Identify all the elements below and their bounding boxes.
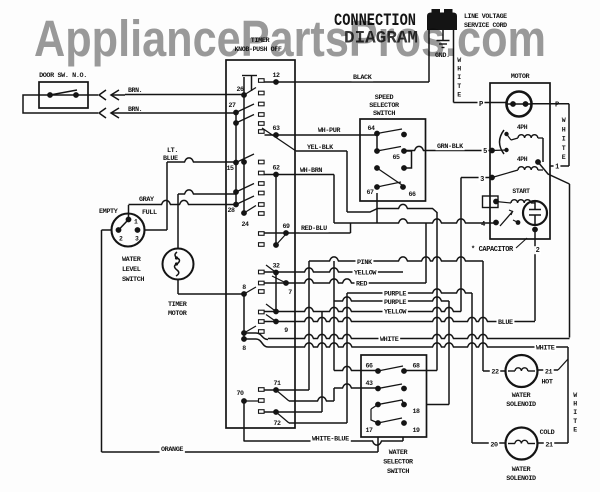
- wire 19 drop: [402, 437, 404, 441]
- svg-text:67: 67: [366, 189, 374, 196]
- switch timer 71 arm: [276, 390, 289, 401]
- svg-text:7: 7: [288, 289, 292, 296]
- node timer 8b: [241, 330, 247, 352]
- node timer 9: [273, 319, 288, 334]
- label motor: [511, 73, 531, 81]
- svg-text:1: 1: [555, 164, 559, 172]
- svg-text:27: 27: [228, 102, 236, 109]
- wire PURPLE upper: [347, 289, 472, 299]
- switch water-level arm 1-2: [119, 220, 129, 231]
- node timer 24: [241, 210, 249, 228]
- svg-text:SWITCH: SWITCH: [387, 468, 409, 476]
- svg-text:EMPTY: EMPTY: [99, 208, 119, 216]
- switch timer cams left: [236, 88, 264, 216]
- switch speed-selector box: [360, 119, 426, 201]
- svg-text:MOTOR: MOTOR: [511, 73, 531, 81]
- svg-text:BLACK: BLACK: [353, 74, 373, 82]
- node wsel l3: [375, 402, 381, 408]
- svg-text:HOT: HOT: [541, 379, 552, 387]
- node timer 27: [228, 102, 238, 115]
- svg-text:SWITCH: SWITCH: [122, 276, 144, 284]
- svg-text:FULL: FULL: [142, 209, 157, 217]
- svg-text:MOTOR: MOTOR: [168, 310, 188, 318]
- svg-text:32: 32: [272, 263, 280, 270]
- node timer 62: [272, 165, 280, 178]
- svg-text:PURPLE: PURPLE: [384, 291, 406, 299]
- ground gnd symbol: [437, 41, 450, 48]
- node timer b2: [233, 120, 239, 126]
- node motor 4: [480, 220, 499, 229]
- svg-text:START: START: [512, 188, 530, 195]
- wire YELLOW: [265, 268, 404, 278]
- wire yel-blk drop: [347, 151, 437, 213]
- switch wsel arm 17: [378, 418, 402, 423]
- switch motor overload box: [483, 196, 499, 208]
- svg-text:68: 68: [412, 363, 420, 370]
- svg-text:W: W: [562, 117, 566, 124]
- wire RED riser: [425, 223, 427, 283]
- svg-text:WATER: WATER: [122, 256, 142, 264]
- svg-text:WHITE: WHITE: [380, 336, 399, 344]
- wire YELLOW lower: [265, 307, 462, 316]
- wire timer 70 drop: [243, 401, 245, 442]
- label hot water solenoid: [506, 392, 536, 409]
- svg-text:PURPLE: PURPLE: [384, 299, 406, 307]
- svg-text:4: 4: [481, 221, 485, 229]
- switch wsel arm 43: [378, 384, 402, 389]
- wire timer bus A: [242, 76, 264, 96]
- node door-sw terminal right: [73, 92, 79, 98]
- wire gnd stem: [442, 30, 444, 41]
- node timer 28: [227, 202, 238, 214]
- node timer 7: [283, 280, 292, 296]
- svg-text:65: 65: [392, 154, 400, 161]
- svg-text:2: 2: [119, 236, 123, 243]
- svg-text:WATER: WATER: [512, 466, 532, 474]
- connector arrow head bottom: [111, 108, 125, 118]
- connector line-voltage service cord plug: [427, 9, 457, 30]
- wire RED-BLU: [265, 223, 351, 233]
- wire motor white diagonal: [538, 162, 570, 338]
- switch timer cams mid: [244, 232, 286, 334]
- svg-text:64: 64: [367, 125, 375, 132]
- svg-text:H: H: [573, 401, 577, 408]
- svg-text:66: 66: [365, 363, 373, 370]
- label timer: [235, 37, 282, 54]
- label WHITE vertical solenoids: [573, 392, 577, 433]
- svg-text:WH-BRN: WH-BRN: [300, 167, 322, 175]
- node timer 12: [272, 72, 280, 85]
- svg-text:17: 17: [365, 427, 373, 434]
- node timer 8: [241, 284, 247, 297]
- label timer-motor: [168, 301, 188, 318]
- wire timer-motor bottom lead: [178, 279, 244, 294]
- svg-text:RED: RED: [356, 281, 367, 289]
- svg-text:* CAPACITOR: * CAPACITOR: [471, 246, 514, 254]
- node speed l2: [374, 148, 380, 154]
- svg-text:18: 18: [412, 408, 420, 415]
- svg-text:E: E: [457, 91, 461, 98]
- svg-text:PINK: PINK: [357, 259, 373, 267]
- wire empty-side to left rail: [102, 229, 112, 231]
- node speed 66: [400, 184, 416, 198]
- svg-text:12: 12: [272, 72, 280, 79]
- svg-text:T: T: [457, 83, 461, 90]
- node speed 64: [367, 125, 379, 136]
- wire WH-PUR: [265, 127, 378, 135]
- node water-level terminal 1: [126, 217, 132, 223]
- svg-text:I: I: [562, 136, 566, 143]
- svg-text:28: 28: [227, 207, 235, 214]
- svg-text:21: 21: [545, 369, 553, 377]
- node wsel 19: [401, 420, 420, 434]
- switch water-selector box: [361, 355, 427, 437]
- label capacitor: [471, 238, 527, 254]
- node timer 62b: [273, 242, 279, 248]
- svg-text:GRAY: GRAY: [139, 196, 155, 204]
- wire speed 64 link: [376, 134, 378, 152]
- svg-text:COLD: COLD: [540, 429, 555, 437]
- svg-text:1: 1: [134, 219, 138, 226]
- wire YEL-BLK: [262, 128, 347, 152]
- svg-text:WHITE-BLUE: WHITE-BLUE: [312, 436, 349, 444]
- wire speed right U-link: [404, 151, 412, 168]
- node watermark-appliancepartspros: [34, 10, 546, 67]
- wire PINK: [265, 257, 484, 390]
- wire motor 2 drop: [534, 230, 541, 322]
- label EMPTY: [99, 208, 119, 216]
- node water-level terminal 3: [135, 227, 141, 233]
- svg-text:GRN-BLK: GRN-BLK: [437, 143, 464, 151]
- svg-text:BRN.: BRN.: [128, 87, 142, 94]
- svg-text:70: 70: [236, 390, 244, 397]
- coil timer-motor winding: [175, 252, 180, 276]
- node timer n311: [273, 309, 279, 315]
- node motor 5: [482, 147, 507, 156]
- switch door-sw-n.o. box: [39, 82, 88, 108]
- svg-text:63: 63: [272, 125, 280, 132]
- solenoid hot water circle: [506, 355, 538, 387]
- connector arrow head top: [111, 90, 125, 100]
- svg-text:E: E: [562, 154, 566, 161]
- wire GRAY: [129, 196, 237, 217]
- switch speed arm row2: [377, 147, 401, 152]
- svg-text:62: 62: [272, 165, 280, 172]
- svg-text:T: T: [562, 145, 566, 152]
- switch timer cams bottom: [244, 388, 264, 414]
- wire purple drop to 18: [427, 301, 449, 405]
- wire white drop from plug: [454, 30, 491, 103]
- wire ORANGE bottom run: [102, 445, 379, 454]
- label P left: [478, 100, 485, 109]
- svg-text:H: H: [562, 126, 566, 133]
- svg-text:71: 71: [273, 380, 281, 387]
- svg-text:SOLENOID: SOLENOID: [506, 401, 536, 409]
- svg-text:22: 22: [491, 369, 499, 377]
- wire pink drop to hot: [483, 261, 505, 371]
- node speed 67: [366, 184, 379, 196]
- svg-text:LEVEL: LEVEL: [122, 266, 141, 274]
- wire motor 3 lead: [461, 172, 511, 312]
- node wsel 18: [401, 402, 420, 415]
- svg-text:9: 9: [284, 327, 288, 334]
- svg-text:SELECTOR: SELECTOR: [383, 459, 414, 467]
- node speed r1: [401, 132, 407, 138]
- switch motor start-switch: [500, 210, 520, 226]
- switch timer box: [226, 60, 295, 428]
- label cold 20: [489, 441, 499, 450]
- wire 72diag to purple: [289, 293, 347, 423]
- coil motor start: [493, 188, 535, 204]
- node speed l3: [374, 165, 380, 171]
- node timer 72: [273, 409, 281, 427]
- wire WHITE upper: [244, 333, 570, 344]
- svg-text:T: T: [573, 418, 577, 425]
- svg-text:WHITE: WHITE: [536, 345, 555, 353]
- node timer 26: [236, 86, 246, 98]
- svg-text:BRN.: BRN.: [128, 106, 142, 113]
- svg-text:72: 72: [273, 420, 281, 427]
- svg-text:YEL-BLK: YEL-BLK: [307, 144, 334, 152]
- svg-text:WH-PUR: WH-PUR: [318, 127, 341, 135]
- wire white right drop: [538, 347, 568, 443]
- wire 17 drop: [377, 437, 379, 452]
- motor timer-motor circle: [163, 249, 194, 280]
- coil motor 4PH lower: [511, 156, 543, 172]
- svg-text:E: E: [573, 426, 577, 433]
- wire BLUE: [265, 317, 536, 327]
- wire P right link: [532, 104, 570, 166]
- svg-text:LT.: LT.: [167, 147, 178, 155]
- svg-text:19: 19: [412, 427, 420, 434]
- svg-text:RED-BLU: RED-BLU: [301, 225, 327, 233]
- solenoid cold water circle: [506, 428, 538, 460]
- svg-text:SWITCH: SWITCH: [373, 110, 395, 118]
- connector arrow chevron bottom: [99, 108, 106, 118]
- capacitor motor capacitor circle: [523, 201, 547, 225]
- wire 72 to yellow: [265, 411, 323, 413]
- svg-text:3: 3: [135, 236, 139, 243]
- svg-text:21: 21: [545, 442, 553, 450]
- svg-text:4PH: 4PH: [517, 124, 528, 131]
- wire yel-blk to 68: [404, 212, 437, 371]
- svg-text:43: 43: [365, 380, 373, 387]
- node timer 15: [226, 160, 238, 172]
- label FULL: [142, 209, 157, 217]
- wire BRN upper: [125, 87, 244, 95]
- svg-text:24: 24: [241, 221, 249, 228]
- wire LT-BLUE: [145, 147, 237, 230]
- wire BLACK run: [265, 73, 430, 82]
- label WHITE vertical right motor: [562, 117, 566, 161]
- wire timer 32 link: [275, 273, 277, 312]
- svg-text:ORANGE: ORANGE: [161, 446, 183, 454]
- switch wsel arm row3: [371, 400, 404, 423]
- node door-sw terminal left: [47, 92, 53, 98]
- wire WH-BRN: [265, 167, 335, 175]
- label cold water solenoid: [506, 466, 536, 483]
- node motor capacitor bottom: [532, 227, 538, 233]
- svg-text:YELLOW: YELLOW: [354, 270, 377, 278]
- label hot 21: [541, 368, 553, 387]
- wire PURPLE lower: [334, 297, 449, 307]
- svg-text:8: 8: [242, 345, 246, 352]
- node timer 32: [272, 263, 280, 276]
- svg-text:20: 20: [490, 442, 498, 450]
- wire wh-brn drop to motor4: [334, 175, 496, 224]
- wire black drop from plug: [428, 30, 430, 82]
- wire 66 feed: [334, 261, 378, 371]
- svg-text:26: 26: [236, 86, 244, 93]
- motor protector circle: [507, 92, 532, 117]
- label GND: [435, 52, 450, 60]
- wire GRN-BLK: [404, 142, 490, 151]
- node wsel 43: [365, 380, 380, 391]
- node timer 71: [273, 380, 281, 393]
- label door-sw: [39, 72, 87, 80]
- wire speed67 drop: [376, 193, 378, 223]
- switch motor centrifugal: [500, 130, 512, 154]
- svg-text:BLUE: BLUE: [163, 155, 178, 163]
- svg-text:69: 69: [282, 223, 290, 230]
- label hot 22: [490, 368, 500, 377]
- svg-text:WATER: WATER: [389, 449, 409, 457]
- label speed 65: [392, 154, 400, 161]
- node timer 69: [282, 223, 290, 236]
- label connection-diagram title: [334, 11, 418, 49]
- svg-text:SPEED: SPEED: [375, 94, 394, 102]
- wire WHITE lower: [244, 339, 568, 353]
- coil motor 4PH upper: [511, 124, 543, 140]
- wire coil link right: [535, 138, 543, 165]
- svg-text:YELLOW: YELLOW: [384, 309, 407, 317]
- wire timer-motor top lead: [178, 190, 236, 249]
- wire P left lead: [490, 102, 507, 104]
- wire timer 8 link: [243, 294, 245, 339]
- svg-text:8: 8: [242, 284, 246, 291]
- svg-text:AppliancePartsPros.com: AppliancePartsPros.com: [34, 10, 546, 67]
- label cold 21: [540, 429, 555, 450]
- switch wsel arm 66: [378, 366, 403, 371]
- switch speed arm 67: [377, 182, 401, 187]
- wire timer bus B: [235, 113, 237, 205]
- wire hot 21 link: [538, 359, 568, 370]
- node wsel 66: [365, 363, 380, 374]
- node timer 63: [272, 125, 280, 138]
- node speed r3: [401, 165, 407, 171]
- wire ORANGE left rail: [101, 230, 103, 452]
- svg-text:I: I: [457, 74, 461, 81]
- connector arrow chevron top: [99, 90, 106, 100]
- label speed-selector: [369, 94, 400, 118]
- node wsel r2: [401, 386, 407, 392]
- svg-text:4PH: 4PH: [517, 156, 528, 163]
- switch speed arm row3: [377, 168, 402, 185]
- motor box: [490, 83, 550, 239]
- label water-selector: [383, 449, 414, 476]
- wire yellow riser 72: [321, 312, 323, 413]
- label line-voltage-service-cord: [464, 13, 507, 29]
- svg-text:5: 5: [483, 148, 487, 156]
- wire RED: [265, 279, 427, 289]
- wire WHITE-BLUE: [244, 435, 403, 445]
- node timer 24a: [241, 159, 247, 165]
- label water-level-switch: [122, 256, 144, 284]
- svg-text:SOLENOID: SOLENOID: [506, 475, 536, 483]
- switch speed arm 64: [377, 129, 402, 134]
- wire timer bus A2: [243, 95, 245, 213]
- label WHITE vertical left: [457, 57, 461, 98]
- svg-text:I: I: [573, 409, 577, 416]
- wire brn loop left of door switch: [23, 95, 98, 113]
- wire timer 62 link: [275, 175, 277, 246]
- switch timer 72 arm: [276, 412, 289, 423]
- svg-text:SELECTOR: SELECTOR: [369, 102, 400, 110]
- svg-text:DOOR SW. N.O.: DOOR SW. N.O.: [39, 72, 87, 80]
- wire purple drop to cold: [472, 293, 505, 443]
- wire BRN lower: [125, 106, 236, 113]
- node speed r2: [401, 148, 407, 154]
- node wsel 17: [365, 420, 380, 434]
- node wsel 68: [401, 363, 420, 374]
- node timer b4: [233, 189, 239, 195]
- svg-text:TIMER: TIMER: [168, 301, 188, 309]
- node timer 70: [236, 390, 246, 404]
- wire 43 feed: [289, 384, 378, 401]
- svg-text:WATER: WATER: [512, 392, 532, 400]
- label P right: [554, 101, 561, 110]
- node water-level terminal 2: [116, 227, 122, 233]
- label terminal 1: [554, 163, 561, 172]
- svg-text:15: 15: [226, 165, 234, 172]
- svg-text:W: W: [573, 392, 577, 399]
- switch door-sw contact arm: [50, 90, 77, 95]
- svg-text:66: 66: [408, 191, 416, 198]
- svg-text:BLUE: BLUE: [498, 319, 513, 327]
- label water-level pins: [119, 219, 139, 243]
- svg-text:3: 3: [480, 176, 484, 184]
- svg-text:2: 2: [536, 247, 540, 255]
- switch water-level pressure circle: [112, 214, 145, 247]
